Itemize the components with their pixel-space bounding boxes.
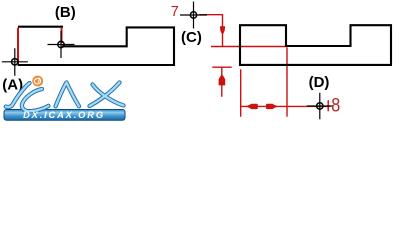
svg-text:8: 8	[331, 95, 340, 117]
svg-text:(C): (C)	[181, 29, 202, 46]
svg-text:7: 7	[171, 4, 179, 20]
svg-text:DX.ICAX.ORG: DX.ICAX.ORG	[23, 110, 105, 120]
svg-text:(B): (B)	[55, 4, 76, 21]
svg-text:(D): (D)	[309, 74, 330, 91]
